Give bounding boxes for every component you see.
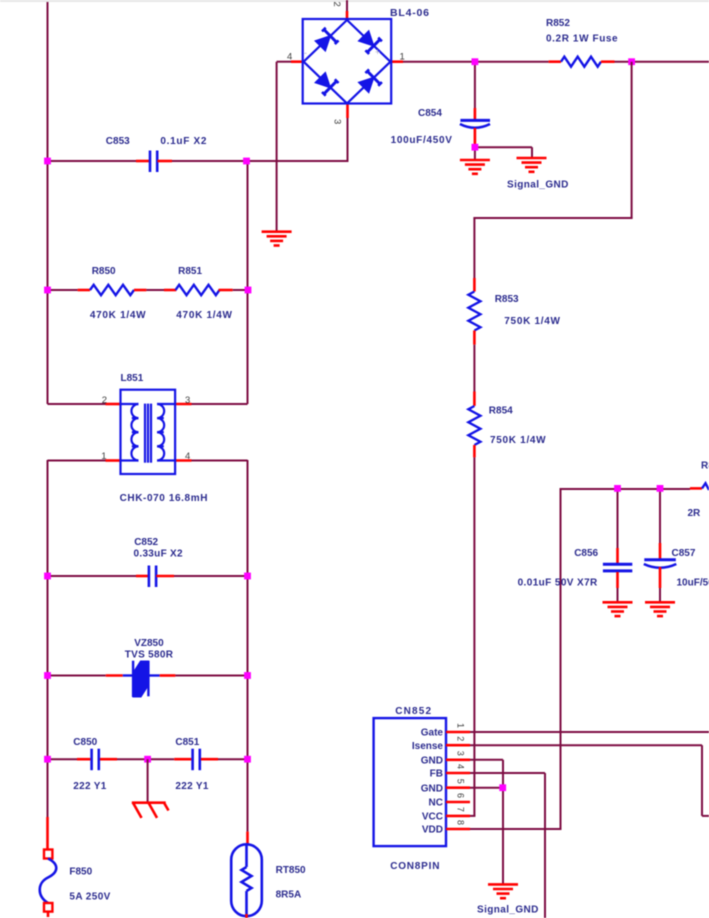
diode D-topleft of BL4-06 <box>315 36 330 51</box>
resistor R853 bottom lead <box>473 331 476 345</box>
svg-text:Gate: Gate <box>421 728 444 739</box>
resistor R853 <box>468 292 480 331</box>
svg-text:1: 1 <box>456 723 466 728</box>
svg-text:2: 2 <box>456 736 466 741</box>
diode D-topright of BL4-06 <box>359 31 374 46</box>
svg-text:Isense: Isense <box>412 741 444 752</box>
svg-text:0.2R 1W Fuse: 0.2R 1W Fuse <box>546 34 618 45</box>
wire across to divider <box>473 217 632 219</box>
svg-text:222 Y1: 222 Y1 <box>73 781 106 792</box>
TVS VZ850 <box>123 661 160 697</box>
svg-text:2: 2 <box>102 395 107 406</box>
svg-text:GND: GND <box>421 755 443 766</box>
svg-text:4: 4 <box>185 451 190 462</box>
wire C853 to node <box>172 160 247 162</box>
capacitor C853 right lead <box>157 160 172 163</box>
wire left AC rail upper <box>47 2 49 404</box>
resistor R851 right lead <box>219 289 233 292</box>
svg-text:5A 250V: 5A 250V <box>69 892 110 903</box>
wire node to C857 <box>659 489 661 543</box>
svg-text:C852: C852 <box>134 537 158 548</box>
node junction C851 rail <box>244 756 251 763</box>
wire VCC pin7 <box>470 815 475 817</box>
svg-text:L851: L851 <box>121 373 144 384</box>
capacitor C853 <box>149 151 152 173</box>
svg-text:R851: R851 <box>178 266 202 277</box>
svg-text:7: 7 <box>456 807 466 812</box>
bridge rectifier BL4-06 <box>303 19 392 104</box>
capacitor C852 left lead <box>136 575 149 578</box>
svg-text:5: 5 <box>456 779 466 784</box>
capacitor C856 bottom lead <box>616 572 619 588</box>
thermistor RT850 bottom lead <box>245 914 248 918</box>
svg-text:VZ850: VZ850 <box>134 638 164 649</box>
capacitor C853 left lead <box>136 160 150 163</box>
svg-text:C851: C851 <box>175 737 199 748</box>
capacitor C850 left lead <box>77 758 90 761</box>
svg-text:VCC: VCC <box>422 812 443 823</box>
wire GND down to ground <box>502 760 504 884</box>
node junction C853 bridge <box>243 158 250 165</box>
svg-text:3: 3 <box>456 751 466 756</box>
wire node down <box>631 62 633 218</box>
svg-text:8R5A: 8R5A <box>276 890 302 901</box>
inductor L851 pin 3 lead <box>175 403 191 406</box>
svg-text:1: 1 <box>101 451 106 462</box>
wire to R853 <box>473 218 475 278</box>
resistor R854 <box>468 406 480 445</box>
pin 2 Isense of CN852 <box>446 744 470 747</box>
wire node to R852 <box>475 61 549 63</box>
svg-text:2R: 2R <box>688 508 702 519</box>
wire node to C854 <box>474 62 476 108</box>
svg-text:Signal_GND: Signal_GND <box>477 905 539 916</box>
wire Isense pin2 <box>470 744 702 746</box>
svg-text:0.1uF X2: 0.1uF X2 <box>160 136 207 147</box>
chassis ground <box>132 803 169 818</box>
TVS VZ850 right lead <box>160 674 176 677</box>
capacitor C854 bottom lead <box>474 128 477 144</box>
wire node to right edge <box>632 61 709 63</box>
wire C857 to ground <box>659 588 661 603</box>
diode D-bottomright of BL4-06 <box>359 78 374 93</box>
wire to second ground <box>531 147 533 158</box>
wire down to VDD pin <box>560 488 562 829</box>
ground Signal_GND right <box>517 158 547 172</box>
capacitor C852 right lead <box>156 575 174 578</box>
wire R853 to R854 <box>473 345 475 392</box>
svg-text:750K 1/4W: 750K 1/4W <box>504 316 560 327</box>
pin 8 VDD of CN852 <box>446 828 470 831</box>
wire VDD pin8 <box>470 828 562 830</box>
wire rail to L851 pin2 <box>48 403 106 405</box>
fuse F850 top lead <box>46 817 49 850</box>
svg-text:FB: FB <box>430 769 443 780</box>
node junction R851 rail <box>245 287 252 294</box>
ground earth below bridge <box>262 232 292 246</box>
svg-text:10uF/50V: 10uF/50V <box>677 578 709 589</box>
svg-text:222 Y1: 222 Y1 <box>175 781 208 792</box>
svg-text:+: + <box>375 47 380 57</box>
svg-text:CN852: CN852 <box>395 706 432 717</box>
resistor R852 left lead <box>549 60 561 63</box>
capacitor C854 (polarized) <box>460 119 490 122</box>
resistor R851 left lead <box>164 289 176 292</box>
wire C850 to C851 <box>117 758 174 760</box>
common-mode choke L851 <box>121 390 176 474</box>
svg-text:3: 3 <box>185 395 190 406</box>
resistor R855 (2R) partial at edge <box>702 483 709 490</box>
node junction rail VZ850 right <box>244 672 251 679</box>
thermistor RT850 top lead <box>246 832 249 845</box>
svg-text:4: 4 <box>287 52 292 63</box>
capacitor C850 right lead <box>100 758 117 761</box>
wire rail to C850 <box>48 758 78 760</box>
svg-text:C856: C856 <box>574 548 598 559</box>
svg-text:F850: F850 <box>69 867 92 878</box>
bridge BL4-06 pin 3 stub <box>346 104 349 119</box>
wire R851 to rail <box>233 289 249 291</box>
node junction rail C850 <box>44 756 51 763</box>
pin 4 FB of CN852 <box>446 772 470 775</box>
svg-text:R852: R852 <box>546 18 570 29</box>
svg-text:3: 3 <box>332 119 343 124</box>
node junction C854 ground <box>472 144 479 151</box>
sheet border top edge <box>0 0 709 2</box>
ground Signal_GND under C856 <box>603 602 633 616</box>
resistor R853 top lead <box>473 278 476 292</box>
svg-text:Signal_GND: Signal_GND <box>507 180 569 191</box>
connector CN852 body <box>374 718 446 846</box>
svg-text:RT850: RT850 <box>276 865 306 876</box>
pin 3 GND of CN852 <box>446 758 470 761</box>
svg-text:BL4-06: BL4-06 <box>390 7 430 19</box>
svg-text:0.33uF X2: 0.33uF X2 <box>134 549 184 560</box>
capacitor C857 top lead <box>659 543 662 559</box>
wire VZ850 to rail <box>175 675 247 677</box>
wire bridge pin4 <box>277 61 291 63</box>
wire VCC node row <box>561 488 691 490</box>
thermistor RT850 <box>231 844 262 916</box>
capacitor C851 right lead <box>201 758 218 761</box>
svg-text:CHK-070 16.8mH: CHK-070 16.8mH <box>120 493 208 504</box>
resistor R852 right lead <box>601 60 615 63</box>
wire GND pin3 <box>470 759 503 761</box>
wire C852 to rail <box>174 575 248 577</box>
capacitor C851 left lead <box>174 758 191 761</box>
resistor R854 top lead <box>473 392 476 406</box>
wire Gate pin1 to edge <box>470 731 709 733</box>
svg-text:4: 4 <box>456 764 466 769</box>
svg-text:VDD: VDD <box>422 825 443 836</box>
ground Signal_GND under CN852 <box>488 884 518 898</box>
capacitor C857 (polarized) <box>644 558 676 561</box>
wire R852 to node <box>615 61 632 63</box>
resistor R855 left lead <box>690 487 702 490</box>
inductor L851 pin 2 lead <box>106 403 121 406</box>
svg-text:C853: C853 <box>106 136 130 147</box>
wire C854 node to second ground <box>475 146 532 148</box>
inductor L851 pin 1 lead <box>106 459 121 462</box>
wire FB pin4 <box>470 772 545 774</box>
svg-text:470K 1/4W: 470K 1/4W <box>90 310 146 321</box>
wire R850 to R851 <box>146 289 164 291</box>
wire node to C856 <box>617 489 619 548</box>
node junction bridge output <box>472 58 479 65</box>
resistor R850 right lead <box>134 289 146 292</box>
wire Isense to edge <box>702 815 709 817</box>
wire Isense down <box>701 745 703 816</box>
pin 1 Gate of CN852 <box>446 731 470 734</box>
pin 5 GND of CN852 <box>446 786 470 789</box>
svg-text:TVS 580R: TVS 580R <box>125 650 174 661</box>
capacitor C857 bottom lead <box>659 567 662 588</box>
capacitor C856 top lead <box>616 548 619 563</box>
wire bridge top feed <box>346 0 348 11</box>
fuse F850 <box>40 850 57 918</box>
svg-text:1: 1 <box>400 52 405 63</box>
wire C853 node to bridge <box>247 160 349 162</box>
capacitor C850 <box>90 749 93 771</box>
ground Signal_GND under C854 <box>460 160 490 174</box>
wire right AC rail lower <box>247 460 249 832</box>
node junction C856 <box>614 485 621 492</box>
TVS VZ850 left lead <box>106 674 123 677</box>
wire L851 pin3 to rail <box>192 403 248 405</box>
wire rail to VZ850 <box>48 675 106 677</box>
node junction left rail C853 <box>44 158 51 165</box>
capacitor C852 <box>148 566 151 588</box>
wire rail to C852 <box>48 575 137 577</box>
wire C854 to ground <box>474 144 476 160</box>
svg-text:6: 6 <box>456 793 466 798</box>
svg-text:0.01uF 50V X7R: 0.01uF 50V X7R <box>518 578 598 589</box>
wire rail to L851 pin1 <box>48 460 106 462</box>
svg-text:750K 1/4W: 750K 1/4W <box>490 435 546 446</box>
wire right AC rail upper <box>247 161 249 404</box>
svg-text:C850: C850 <box>73 737 97 748</box>
inductor L851 pin 4 lead <box>175 459 191 462</box>
capacitor C854 top lead <box>474 108 477 119</box>
node junction rail VZ850 left <box>44 672 51 679</box>
wire pin4 to earth ground <box>276 62 278 232</box>
node junction pin5 GND <box>499 784 506 791</box>
svg-text:100uF/450V: 100uF/450V <box>391 135 453 146</box>
svg-text:R853: R853 <box>495 294 519 305</box>
node junction C850 C851 middle <box>144 756 151 763</box>
wire FB down to edge <box>544 773 546 918</box>
wire left AC rail lower <box>47 460 49 817</box>
ground Signal_GND under C857 <box>645 602 675 616</box>
svg-text:2: 2 <box>331 2 342 7</box>
svg-text:R854: R854 <box>489 406 513 417</box>
svg-text:CON8PIN: CON8PIN <box>390 861 440 872</box>
svg-text:GND: GND <box>421 783 443 794</box>
node junction rail C852 left <box>44 573 51 580</box>
svg-text:NC: NC <box>429 798 443 809</box>
resistor R850 <box>90 285 134 295</box>
resistor R850 left lead <box>78 289 90 292</box>
svg-text:8: 8 <box>456 820 466 825</box>
wire middle node to chassis ground <box>147 759 149 802</box>
wire C851 to rail <box>218 758 248 760</box>
svg-text:470K 1/4W: 470K 1/4W <box>176 310 232 321</box>
capacitor C851 <box>191 749 194 771</box>
pin 6 NC of CN852 <box>446 801 470 804</box>
bridge BL4-06 pin 2 stub <box>346 11 349 20</box>
node junction C857 <box>657 485 664 492</box>
wire L851 pin4 to rail <box>192 460 248 462</box>
svg-text:R850: R850 <box>92 266 116 277</box>
wire rail to R850 <box>48 289 78 291</box>
wire GND pin5 <box>470 787 503 789</box>
svg-text:R8: R8 <box>701 461 709 472</box>
node junction after R852 <box>628 58 635 65</box>
svg-text:-: - <box>304 48 307 58</box>
bridge BL4-06 pin 4 stub <box>291 60 303 63</box>
wire bridge bottom to C853 node <box>347 118 349 161</box>
diode D-bottomleft of BL4-06 <box>315 73 330 88</box>
wire left rail to C853 <box>48 160 137 162</box>
node junction rail C852 right <box>244 573 251 580</box>
wire R854 down to VCC <box>473 457 475 816</box>
wire bridge pin1 to node <box>403 61 475 63</box>
resistor R852 <box>561 57 601 67</box>
svg-text:C854: C854 <box>418 108 442 119</box>
svg-text:C857: C857 <box>672 548 696 559</box>
wire C856 to ground <box>617 588 619 603</box>
resistor R851 <box>176 285 220 295</box>
pin 7 VCC of CN852 <box>446 815 470 818</box>
node junction rail R850 <box>44 287 51 294</box>
resistor R854 bottom lead <box>473 445 476 457</box>
capacitor C856 <box>603 563 632 566</box>
bridge BL4-06 pin 1 stub <box>391 60 403 63</box>
